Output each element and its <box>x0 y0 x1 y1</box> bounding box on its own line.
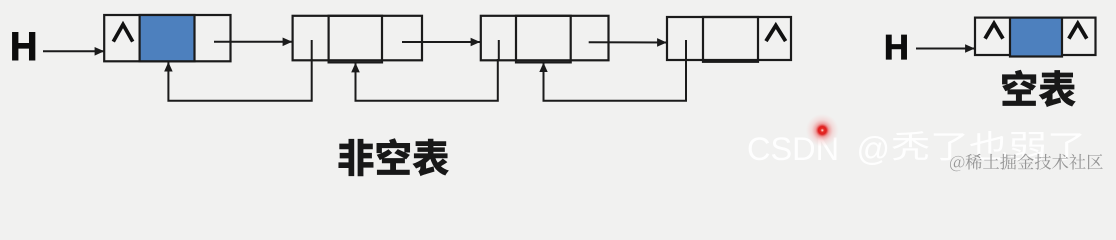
svg-text:@: @ <box>857 130 891 167</box>
